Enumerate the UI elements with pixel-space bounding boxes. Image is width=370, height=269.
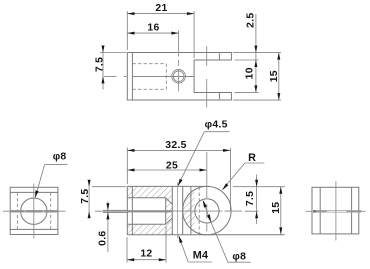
outer eye circle: [183, 186, 231, 234]
dimension 7.5 (top view left): [100, 46, 127, 90]
left view slot band: [10, 210, 58, 212]
top view left inner edge line: [131, 53, 133, 101]
svg-text:10: 10: [245, 67, 256, 79]
right view slot band white center: [327, 210, 347, 213]
dimension 25: [127, 169, 206, 171]
right view square: [312, 187, 359, 234]
eye hole circle phi8: [195, 199, 219, 223]
vertical tapped hole walls: [171, 186, 173, 234]
svg-text:32.5: 32.5: [165, 140, 186, 151]
counterbore hole lines: [128, 197, 166, 199]
left view circle phi8: [21, 198, 47, 224]
svg-text:7.5: 7.5: [80, 189, 91, 204]
slot band 0.6: [128, 210, 173, 212]
left view inner horizontals: [10, 191, 58, 193]
svg-text:2.5: 2.5: [245, 13, 256, 28]
left view square: [10, 187, 58, 234]
svg-text:15: 15: [269, 70, 280, 82]
arm chamfer mark bottom: [218, 93, 220, 99]
hidden bore rectangle (dashed): [132, 64, 166, 90]
svg-text:φ8: φ8: [53, 152, 67, 163]
right view vertical centerline: [335, 181, 337, 241]
dimension 15 (front view right): [280, 187, 282, 235]
dimension 2.5 (top view right): [233, 14, 281, 60]
svg-text:M4: M4: [193, 250, 209, 262]
svg-text:R: R: [248, 152, 256, 164]
svg-text:0.6: 0.6: [97, 231, 108, 246]
left view horizontal centerline: [3, 210, 66, 212]
vertical centerline of eye hole (top view): [206, 46, 208, 108]
dimension 10 (top view right): [235, 60, 259, 92]
svg-text:25: 25: [166, 160, 178, 171]
right view left edge slot tick: [313, 210, 316, 213]
dimension 21: [127, 11, 194, 58]
right view horizontal centerline: [306, 210, 312, 212]
tapped hole circle outer (top view): [172, 70, 186, 84]
dimension 12: [127, 226, 166, 263]
dimension 0.6: [103, 202, 127, 253]
svg-text:φ4.5: φ4.5: [205, 119, 228, 130]
svg-text:φ8: φ8: [232, 251, 246, 262]
hatch eye crescent: [183, 186, 231, 234]
hatch lower body: [128, 213, 173, 235]
top view outline: [127, 53, 231, 101]
svg-text:7.5: 7.5: [95, 57, 106, 72]
hidden slot end line (dashed): [198, 187, 200, 235]
left view hidden slot walls (dashed): [17, 192, 50, 229]
dimension 7.5 (front view left): [89, 180, 126, 218]
right view slot band: [316, 210, 362, 212]
tapped hole centerline vertical (front view): [177, 183, 179, 239]
vertical centerline of tapped hole: [178, 45, 180, 91]
dimension 16: [127, 31, 178, 46]
svg-text:16: 16: [147, 22, 159, 33]
dimension 15 (top view right): [233, 53, 281, 101]
eye horizontal centerline (front view): [173, 210, 242, 212]
right view inner verticals: [319, 187, 321, 234]
dimension 7.5 (front view right): [233, 175, 285, 225]
dimension 32.5: [127, 148, 230, 212]
hatch upper body: [128, 186, 173, 210]
hole centerline horizontal in top view: [132, 75, 194, 77]
eye vertical centerline (front view): [206, 152, 208, 232]
left view vertical centerline: [33, 184, 35, 239]
svg-text:7.5: 7.5: [245, 191, 256, 206]
arm chamfer mark top: [218, 53, 220, 59]
svg-text:15: 15: [271, 202, 282, 214]
svg-text:21: 21: [155, 3, 167, 14]
tapped hole circle inner (top view): [173, 71, 184, 82]
front view outline left: [127, 186, 284, 234]
svg-text:12: 12: [140, 249, 152, 260]
eye inner shoulder line: [190, 186, 192, 234]
